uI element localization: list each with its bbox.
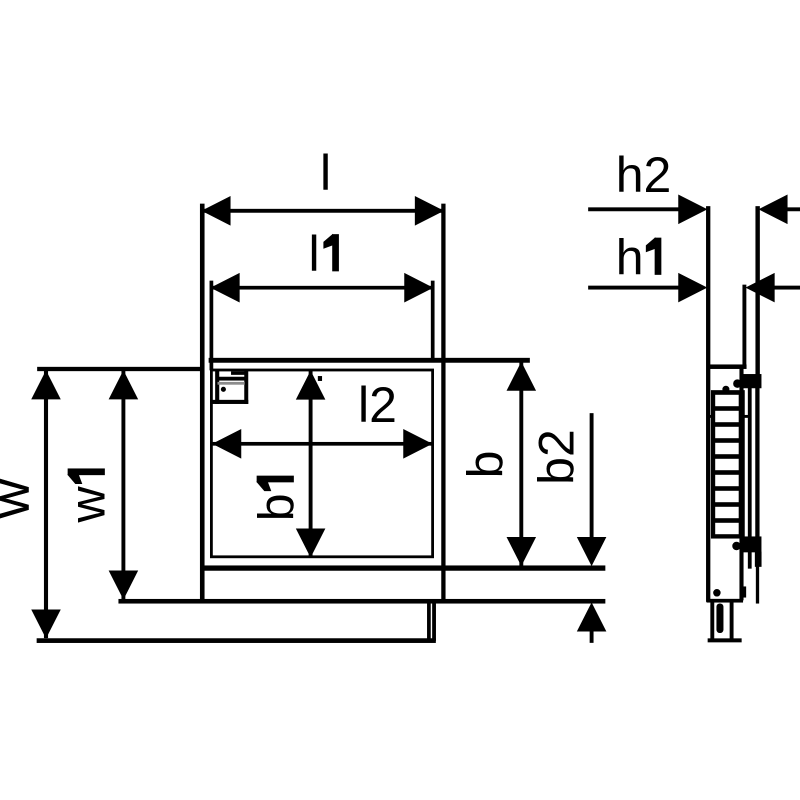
wire: lower recess right edge double line (427, 602, 430, 641)
dimension l2 right arrowhead (404, 430, 432, 458)
dimension l left arrowhead (202, 197, 230, 225)
dimension w1 top arrowhead (109, 371, 137, 399)
wire: h1 right extension line (743, 285, 746, 366)
center tick left (708, 415, 715, 417)
screw dot bottom left (714, 589, 721, 596)
dimension b top arrowhead (507, 362, 535, 390)
dimension l2 line (213, 442, 432, 445)
side view body right edge (740, 366, 743, 600)
dimension h2 line left part (589, 208, 680, 211)
dimension W bottom arrowhead (32, 610, 60, 638)
dimension b2 lower up arrowhead (577, 603, 605, 631)
lock detail box bottom edge (213, 400, 248, 403)
wire: door section outer line (756, 380, 760, 552)
dimension l line (202, 209, 443, 212)
wire: side view wall face line / h extension (706, 207, 710, 602)
svg-text:W: W (0, 478, 38, 518)
side view body top edge (708, 365, 746, 369)
svg-text:h: h (616, 230, 644, 286)
screw dot upper (734, 380, 742, 388)
wire: l1 left extension (210, 281, 213, 370)
cabinet bottom edge / b reference line (201, 566, 605, 571)
dimension l1 line (211, 286, 432, 289)
dimension W top arrowhead (32, 371, 60, 399)
dimension h1 arrowhead at wall face (679, 273, 707, 301)
dimension h2 right tail (786, 208, 800, 211)
dimension W stem (44, 371, 47, 638)
lock detail box left edge (216, 371, 219, 404)
dimension w1 bottom arrowhead (109, 571, 137, 599)
dimension w1 stem (122, 371, 125, 599)
lock detail box right edge (245, 371, 248, 404)
svg-text:b2: b2 (529, 429, 585, 485)
dimension h1 line left part (589, 286, 680, 289)
dimension b2 lower tail (590, 630, 593, 643)
svg-text:b: b (458, 451, 514, 479)
wire: l1 right extension (431, 281, 434, 362)
wire: w1 bottom reference / plinth bottom line (119, 599, 605, 603)
upper mounting bracket (742, 374, 762, 388)
wire: W w1 top reference line (38, 367, 202, 371)
dimension b1 top arrowhead (296, 371, 324, 399)
label l1 (309, 226, 339, 282)
dimension h2 arrowhead at wall face (679, 195, 707, 223)
svg-text:w: w (60, 485, 116, 523)
wire: l left extension / cabinet outer left edge (200, 204, 204, 601)
dimension l right arrowhead (415, 197, 443, 225)
dimension b2 stem (590, 414, 593, 539)
dimension l1 left arrowhead (211, 274, 239, 302)
lower mounting bracket (742, 537, 762, 552)
svg-text:l: l (309, 226, 320, 282)
lock detail bar 1 (231, 372, 244, 375)
dimension h2 right arrowhead (759, 195, 787, 223)
door frame inner rectangle (211, 370, 432, 557)
dimension h1 right arrowhead (746, 273, 774, 301)
dimension l1 right arrowhead (405, 274, 433, 302)
svg-text:b: b (249, 493, 305, 521)
foot right edge (730, 602, 733, 639)
wire: door section inner line (748, 380, 751, 568)
lock detail dot (221, 387, 225, 391)
cabinet outer top edge with b reference extension (209, 358, 530, 362)
svg-text:h2: h2 (616, 147, 672, 203)
front lower thick segment (755, 552, 761, 567)
label b1 (249, 476, 305, 521)
manifold rail hatched ladder (711, 391, 744, 539)
svg-text:l2: l2 (358, 377, 397, 433)
lock detail gray bar (218, 382, 245, 385)
dimension l2 left arrowhead (213, 430, 241, 458)
small square marker near b1 stem (318, 376, 322, 380)
screw dot lower (733, 542, 741, 550)
dimension b bottom arrowhead (507, 537, 535, 565)
dimension h1 right tail (773, 286, 800, 289)
dimension b stem (520, 362, 523, 565)
dimension b1 bottom arrowhead (296, 529, 324, 557)
dimension b2 down arrowhead (577, 537, 605, 565)
wire: W bottom reference line (37, 639, 436, 643)
wire: side view front face upper line / h2 extension (756, 207, 760, 376)
bump on rail top (723, 386, 729, 392)
center tick right (744, 415, 749, 417)
side view body bottom edge (707, 599, 743, 602)
foot bottom plate (708, 639, 741, 642)
label w1 (60, 469, 116, 524)
wire: l right extension / cabinet outer right edge (442, 204, 446, 600)
svg-text:l: l (320, 145, 331, 201)
foot left edge (711, 602, 714, 639)
small squares on body right edge (743, 587, 746, 597)
lock detail bar 2 (217, 377, 245, 380)
foot slot (717, 604, 723, 633)
dimension b1 stem (309, 371, 312, 557)
label h1 (616, 230, 661, 286)
wire: front lower thin line (756, 567, 759, 604)
